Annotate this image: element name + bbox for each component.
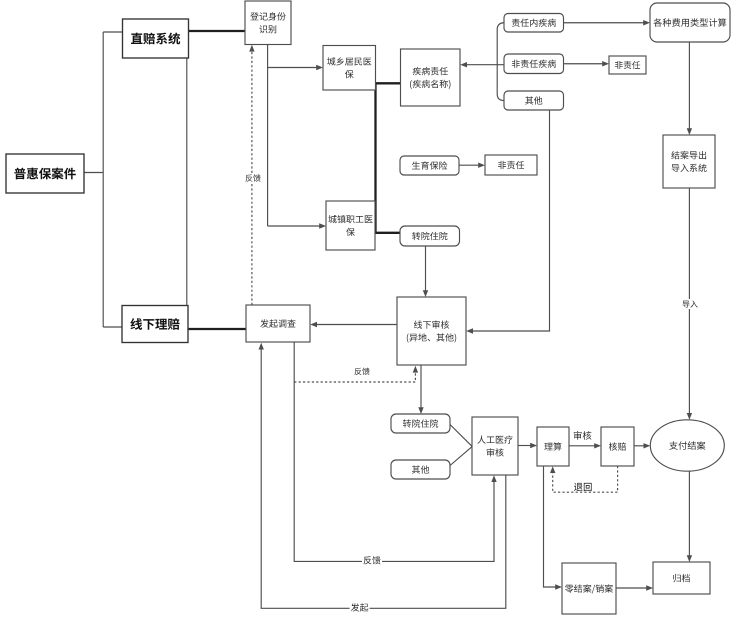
wire 转院住院→线下审核	[423, 246, 428, 297]
wire 直赔系统→登记身份识别 bold	[189, 30, 246, 32]
label 审核	[574, 431, 592, 440]
box 非责任 mid	[485, 155, 537, 175]
wire 责任内疾病→各种费用类型计算	[564, 20, 651, 25]
wire 线下审核→发起调查	[310, 322, 397, 327]
box 城镇职工医保	[326, 201, 375, 250]
box 人工医疗审核	[472, 417, 518, 475]
box 非责任 top	[609, 56, 646, 74]
box 核赔	[601, 427, 634, 466]
wire 结案导出→支付结案 导入	[687, 188, 692, 420]
box 责任内疾病	[504, 14, 564, 33]
box 其他 top	[504, 91, 564, 110]
box 城乡居民医保	[323, 46, 376, 91]
wire bracket→疾病责任	[460, 62, 497, 67]
wire →城乡居民医保	[268, 65, 323, 70]
wire 各种费用类型计算→结案导出	[687, 42, 692, 135]
box 普惠保案件	[6, 154, 84, 193]
wire 反馈 dashed →登记身份识别	[249, 45, 254, 305]
wire 线下审核→转院住院	[418, 366, 423, 415]
box 结案导出导入系统	[663, 135, 715, 188]
wire 人工医疗审核→发起调查 发起	[259, 343, 506, 609]
label 反馈 mid	[353, 366, 371, 376]
wire →城镇职工医保	[268, 223, 326, 228]
wire 理算→核赔	[569, 443, 601, 448]
wire 非责任疾病→非责任	[564, 61, 610, 66]
box 疾病责任(疾病名称)	[401, 49, 461, 106]
wire 零结案→归档	[616, 585, 653, 590]
box 转院住院 top	[400, 226, 460, 246]
node 支付结案 ellipse	[650, 420, 724, 471]
label 反馈 upper	[244, 173, 262, 183]
box 其他 lower	[391, 460, 450, 479]
label 反馈 lower	[362, 555, 382, 566]
wire 其他→线下审核	[466, 110, 549, 334]
wire 支付结案→归档	[687, 471, 692, 562]
wire trunk vertical	[102, 32, 104, 327]
wire bracket	[497, 23, 504, 101]
wire 直赔系统→线下理赔 vertical	[186, 58, 188, 306]
box 生育保险	[400, 156, 459, 175]
wire 其他→人工医疗审核 diag	[450, 447, 472, 466]
wire 人工医疗审核→理算	[518, 443, 537, 448]
box 非责任疾病	[504, 54, 564, 74]
box 零结案/销案	[562, 563, 616, 614]
wire 理算→零结案	[544, 466, 563, 590]
box 登记身份识别	[245, 1, 291, 45]
wire 线下理赔→发起调查 bold	[188, 328, 246, 330]
wire 发起调查→人工医疗审核 反馈	[294, 343, 497, 562]
wire 登记身份识别 drop	[267, 45, 269, 227]
box 发起调查	[246, 305, 310, 342]
box 线下审核(异地、其他)	[397, 297, 466, 365]
box 各种费用类型计算	[650, 3, 730, 42]
label 发起	[350, 602, 370, 613]
wire 医保 bold trunk	[376, 83, 401, 233]
wire 核赔→支付结案	[634, 443, 650, 448]
wire 退回 dashed	[550, 466, 618, 492]
box 转院住院 lower	[391, 414, 450, 433]
box 直赔系统	[123, 19, 189, 58]
label 导入	[681, 299, 699, 309]
wire trunk→线下理赔	[103, 326, 122, 328]
wire 转院住院→人工医疗审核 diag	[450, 425, 472, 447]
box 理算	[537, 427, 569, 466]
wire 反馈 dashed →线下审核	[294, 366, 418, 382]
wire 普惠保案件→trunk	[84, 172, 103, 174]
box 线下理赔	[122, 306, 188, 343]
box 归档	[653, 562, 710, 594]
wire 生育保险→非责任	[459, 163, 485, 168]
label 退回	[574, 483, 592, 491]
wire trunk→直赔系统	[103, 31, 122, 33]
